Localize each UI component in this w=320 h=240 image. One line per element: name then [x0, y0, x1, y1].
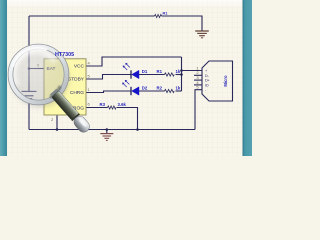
- battery B1: [22, 91, 37, 99]
- LED D1: [123, 63, 139, 79]
- svg-text:HT7305: HT7305: [55, 52, 74, 58]
- wire top right of R to corner and down: [162, 16, 203, 31]
- wire pin1 CHRG to D2: [86, 91, 131, 93]
- right teal sidebar: [243, 0, 253, 156]
- magnifier handle: [49, 88, 92, 135]
- svg-text:VCC: VCC: [74, 64, 85, 70]
- left teal sidebar: [0, 0, 7, 156]
- connector J1 Micro USB body: [202, 61, 233, 101]
- svg-text:ID: ID: [205, 83, 209, 87]
- svg-text:CHRG: CHRG: [70, 90, 84, 96]
- magnifier glass glare crescent: [14, 51, 55, 85]
- magnifier glass: [13, 49, 65, 101]
- svg-text:R1: R1: [157, 69, 163, 74]
- ground (top right): [195, 31, 209, 38]
- LED D2: [122, 80, 139, 95]
- ground (bottom middle): [100, 130, 113, 141]
- junction bus D1 row: [180, 73, 183, 76]
- wire connector pin4 stub: [194, 84, 202, 86]
- wire pin5 STDBY to D1: [86, 75, 131, 80]
- junction bus tap pin1: [180, 69, 183, 72]
- junction IC GND on bottom wire: [56, 128, 59, 131]
- resistor R1 (top): [155, 15, 162, 18]
- wire bus to connector pin1: [182, 70, 203, 72]
- svg-text:D+: D+: [205, 79, 210, 83]
- svg-text:R3: R3: [100, 102, 106, 107]
- wire connector pin5 GND down: [195, 90, 202, 130]
- svg-text:R1: R1: [163, 10, 169, 15]
- resistor R1 (LED row 1): [165, 73, 175, 76]
- wire pin6 PROG to R3: [86, 107, 108, 109]
- sheet background: [0, 0, 252, 156]
- wire right bus vertical: [181, 57, 183, 91]
- wire connector pin3 stub: [194, 79, 202, 81]
- top edge glow: [0, 0, 252, 8]
- svg-text:Micro: Micro: [223, 75, 228, 87]
- svg-text:D2: D2: [142, 86, 148, 91]
- wire D1 anode to R1: [139, 74, 165, 76]
- svg-text:3.6k: 3.6k: [118, 102, 127, 107]
- wire R3 to corner down to bottom: [117, 108, 138, 130]
- wire R2 to bus: [176, 90, 182, 92]
- resistor R2 (LED row 2): [165, 89, 175, 92]
- svg-text:D1: D1: [142, 69, 148, 74]
- wire R1 to bus: [176, 74, 182, 76]
- wire left vertical upper: [28, 16, 30, 91]
- junction at BAT wire: [28, 67, 31, 70]
- svg-text:STDBY: STDBY: [68, 77, 85, 83]
- svg-text:+: +: [205, 69, 207, 73]
- magnifier ring: [8, 44, 69, 105]
- junction ground on bottom wire: [106, 128, 109, 131]
- IC U1 HT7305 body: [44, 59, 86, 115]
- svg-text:R2: R2: [157, 86, 163, 91]
- wire IC GND pin2 down: [56, 115, 58, 130]
- wire top horizontal to R: [29, 15, 155, 17]
- svg-text:1k: 1k: [176, 69, 181, 74]
- wire D2 anode to R2: [139, 90, 165, 92]
- svg-text:1k: 1k: [176, 86, 181, 91]
- magnifier shadow: [12, 50, 70, 108]
- wire bottom horizontal: [29, 129, 195, 131]
- junction R3 on bottom wire: [136, 128, 139, 131]
- wire BAT pin: [29, 68, 44, 70]
- wire left vertical lower: [28, 99, 30, 129]
- resistor R3: [108, 106, 116, 109]
- wire pin4 VCC to top bus: [86, 57, 182, 66]
- wire connector pin2 stub: [194, 74, 202, 76]
